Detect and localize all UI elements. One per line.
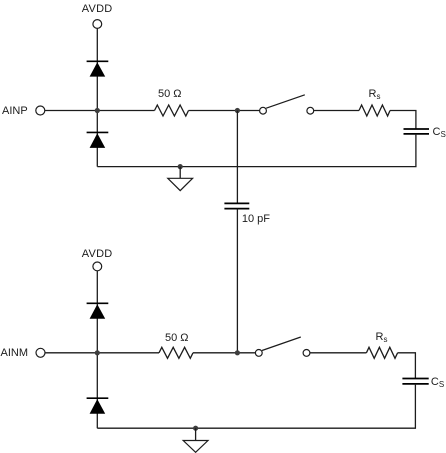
wire AVDD stub down through diodes to bottom rail (96, 28, 98, 166)
wire Cs down and bottom rail of top section (97, 134, 416, 167)
wire 10pF down to bottom sampling node (236, 209, 238, 353)
wire Cs down and bottom rail of bottom section (97, 384, 415, 428)
svg-text:10 pF: 10 pF (242, 213, 270, 225)
diode D4 (to ground, cathode up at AINM node) (87, 398, 109, 414)
node junction top ground (178, 164, 183, 169)
wire sampling node down to 10pF (236, 111, 238, 204)
wire AINM to resistor (45, 352, 159, 354)
svg-text:AINM: AINM (1, 347, 29, 359)
wire AVDD stub down through diodes to bottom rail (96, 271, 98, 428)
diode D2 (to ground, cathode up at AINP node) (87, 132, 109, 148)
resistor 50 ohm (top) (155, 105, 189, 116)
wire resistor to switch (189, 110, 260, 112)
switch S2 (open) (255, 337, 310, 356)
switch S1 (open) (260, 95, 314, 114)
svg-text:AVDD: AVDD (82, 248, 113, 260)
node junction top sampling node (235, 108, 240, 113)
ground (top) (168, 167, 193, 191)
svg-text:AINP: AINP (2, 105, 28, 117)
capacitor 10 pF (224, 203, 249, 208)
diode D1 (to AVDD, cathode up) (87, 61, 109, 76)
resistor Rs (bottom) (366, 347, 397, 358)
wire switch to Rs (314, 110, 359, 112)
resistor Rs (top) (359, 105, 390, 116)
wire switch to Rs (310, 352, 367, 354)
ground (bottom) (183, 428, 208, 452)
capacitor Cs (bottom) (402, 379, 428, 384)
terminal AINP (36, 106, 45, 115)
node junction bottom ground (193, 426, 198, 431)
terminal AVDD (bottom) (93, 262, 102, 271)
terminal AVDD (top) (93, 20, 102, 29)
wire AINP to resistor (45, 110, 155, 112)
node junction AINP/diodes (95, 108, 100, 113)
node junction bottom sampling node (235, 350, 240, 355)
diode D3 (to AVDD, cathode up) (87, 303, 109, 318)
wire Rs to Cs corner (398, 353, 416, 379)
svg-text:AVDD: AVDD (82, 3, 113, 15)
capacitor Cs (top) (404, 129, 430, 134)
wire resistor to switch (193, 352, 255, 354)
svg-text:50 Ω: 50 Ω (158, 88, 182, 100)
svg-text:50 Ω: 50 Ω (165, 332, 189, 344)
wire Rs to Cs corner (390, 111, 416, 130)
resistor 50 ohm (bottom) (159, 347, 193, 358)
node junction AINM/diodes (95, 350, 100, 355)
terminal AINM (36, 348, 45, 357)
